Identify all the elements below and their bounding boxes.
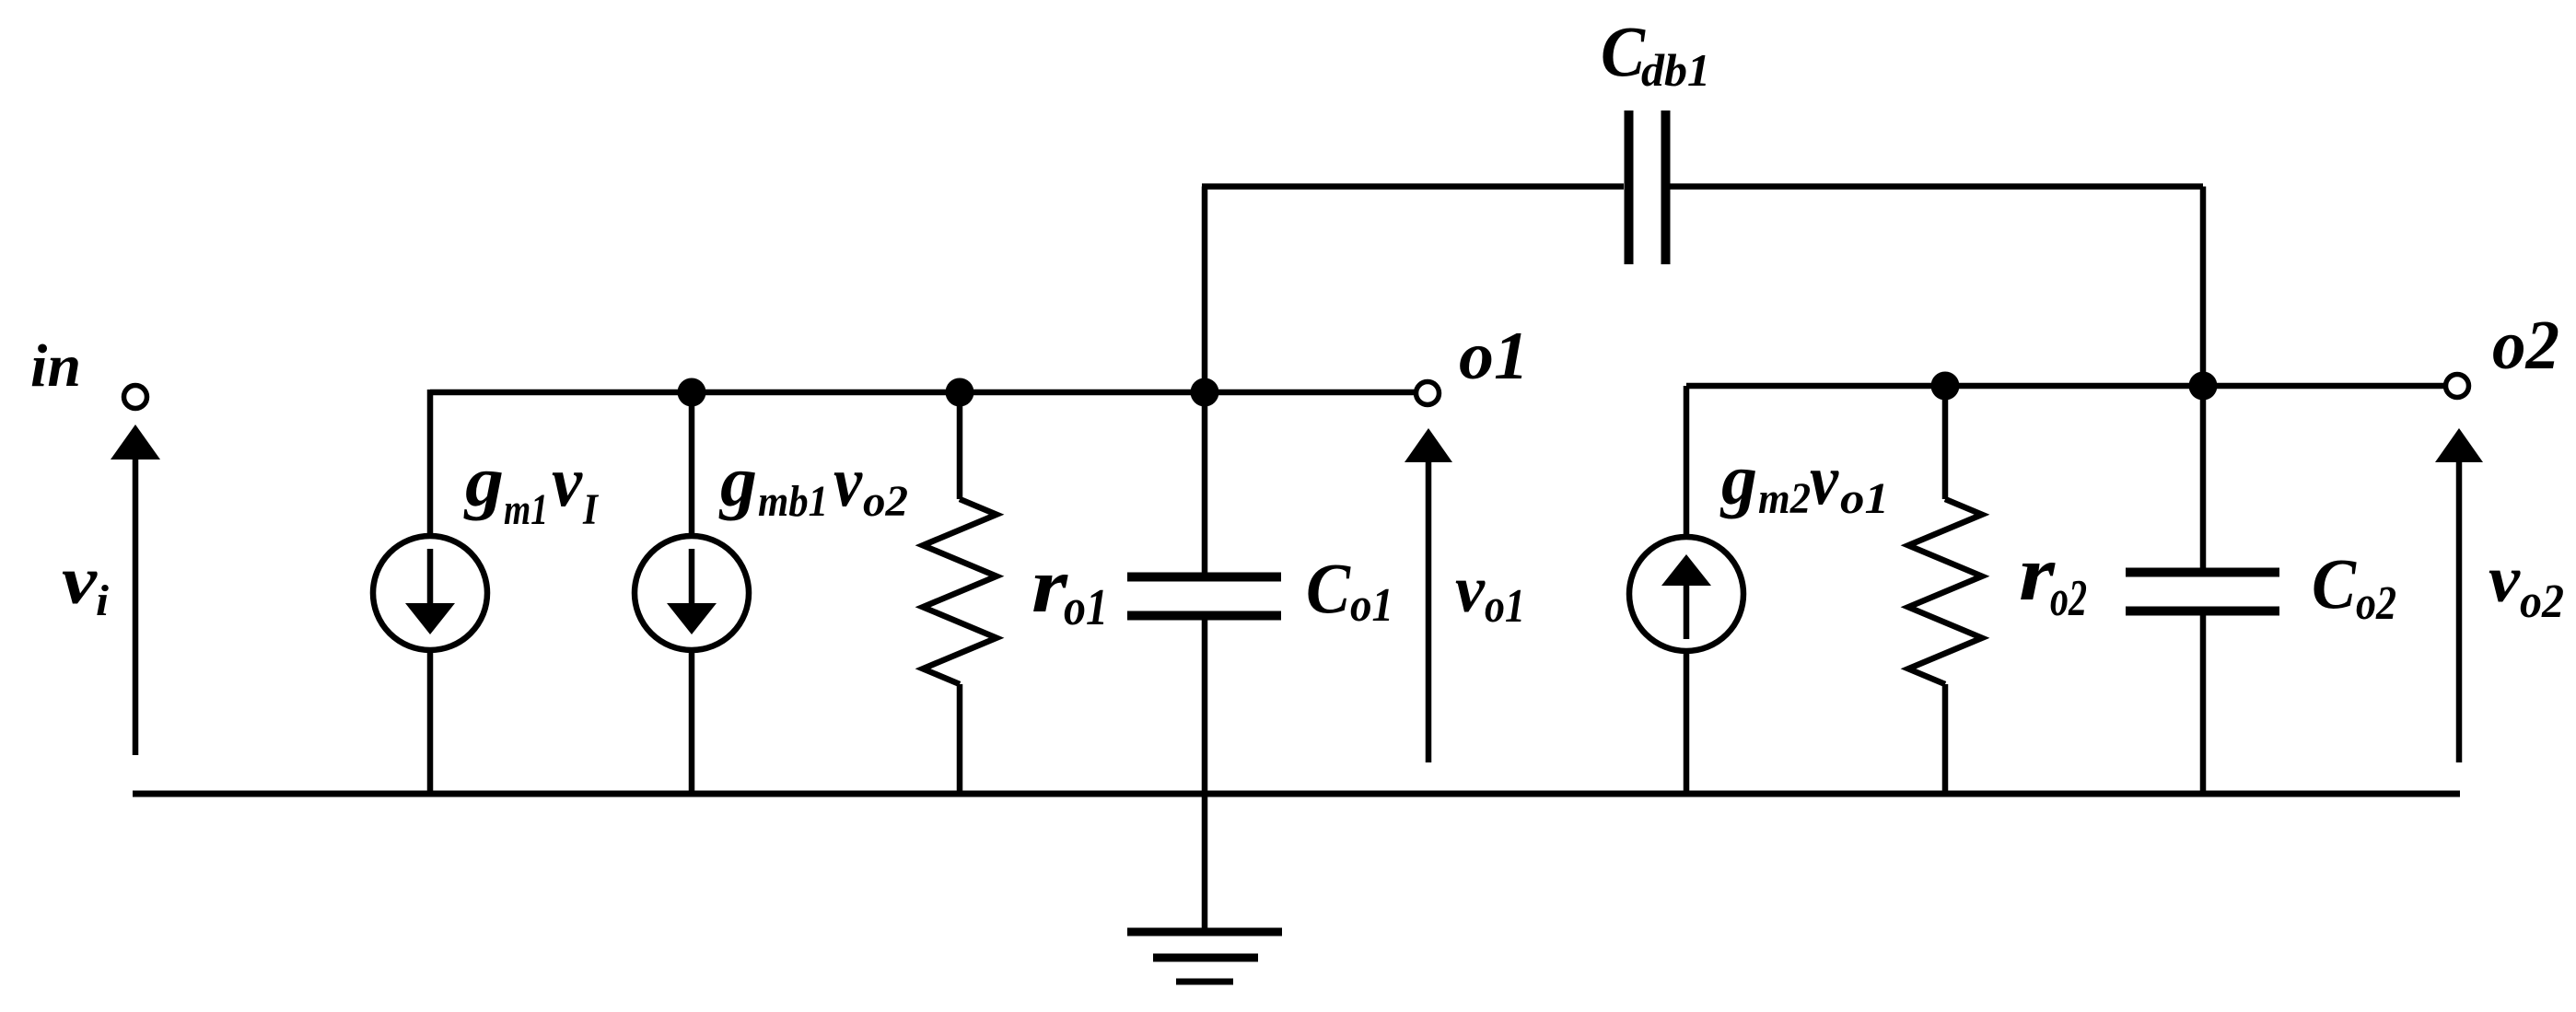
wire gm1 branch bottom: [427, 650, 434, 794]
svg-text:m1: m1: [504, 485, 548, 534]
svg-text:i: i: [96, 576, 110, 625]
label gmb1vo2: [718, 441, 908, 526]
wire top loop horizontal left: [1202, 183, 1624, 190]
arrow vo2: [2435, 428, 2483, 762]
svg-text:o1: o1: [1459, 319, 1529, 394]
capacitor Cdb1: [1629, 111, 1666, 264]
svg-text:g: g: [463, 441, 504, 521]
capacitor Co1: [1127, 392, 1281, 932]
current source gm2vo1: [1629, 537, 1743, 651]
current source gmb1vo2: [635, 536, 749, 650]
svg-text:v: v: [833, 441, 863, 521]
svg-text:db1: db1: [1641, 44, 1710, 96]
arrow vi: [111, 425, 160, 755]
wire top loop left vertical: [1202, 187, 1208, 393]
label gm1vI: [463, 441, 600, 534]
node in open terminal: [124, 386, 147, 409]
node o1 horizontal wire: [430, 390, 1416, 396]
svg-text:v: v: [1810, 439, 1839, 519]
svg-text:C: C: [1601, 11, 1646, 91]
arrow vo1: [1405, 428, 1452, 762]
label ro1: [1032, 542, 1108, 636]
node o2 open terminal: [2446, 375, 2469, 398]
wire gm2 branch bottom: [1684, 651, 1690, 794]
svg-text:g: g: [718, 441, 757, 521]
svg-text:C: C: [2312, 543, 2357, 623]
resistor ro2: [1908, 386, 1982, 794]
junction dot o1/Co1/Cdb1: [1191, 378, 1219, 407]
label vo1: [1455, 553, 1525, 633]
svg-text:in: in: [30, 332, 81, 400]
svg-text:o1: o1: [1485, 580, 1525, 633]
svg-text:g: g: [1719, 439, 1757, 519]
svg-text:m2: m2: [1758, 474, 1811, 523]
svg-text:v: v: [2489, 542, 2521, 616]
svg-text:o2: o2: [2520, 576, 2564, 628]
wire top loop right vertical (to Co2 column): [2200, 187, 2207, 573]
wire gmb1 branch bottom: [689, 650, 695, 794]
svg-text:v: v: [552, 441, 583, 521]
svg-text:v: v: [62, 543, 98, 619]
node o2 horizontal wire: [1686, 383, 2445, 390]
junction dot ro2 top: [1931, 372, 1960, 401]
label Co2: [2312, 543, 2396, 630]
label gm2vo1: [1719, 439, 1889, 523]
svg-text:o2: o2: [2356, 577, 2396, 630]
node o1 open terminal: [1416, 382, 1440, 405]
junction dot gmb1 top: [678, 378, 706, 407]
ground: [1127, 932, 1282, 982]
wire gm1 branch top: [427, 390, 434, 536]
ground rail wire: [133, 791, 2460, 797]
label vi: [62, 543, 110, 625]
capacitor Co2: [2126, 573, 2279, 795]
junction dot o2/Co2/Cdb1: [2189, 372, 2218, 401]
junction dot ro1 top: [946, 378, 974, 407]
svg-text:o1: o1: [1350, 579, 1393, 632]
svg-text:o2: o2: [2492, 307, 2559, 384]
svg-text:mb1: mb1: [758, 477, 828, 526]
wire top loop horizontal right: [1670, 183, 2203, 190]
current source gm1vI: [373, 536, 487, 650]
svg-text:I: I: [582, 485, 600, 534]
svg-text:o2: o2: [2050, 570, 2087, 627]
svg-text:o1: o1: [1064, 579, 1108, 636]
wire gmb1 branch top: [689, 392, 695, 536]
label ro2: [2019, 530, 2087, 627]
wire gm2 branch top: [1684, 386, 1690, 537]
svg-text:o2: o2: [863, 477, 908, 526]
svg-text:o1: o1: [1840, 474, 1889, 523]
label Co1: [1306, 548, 1393, 632]
resistor ro1: [923, 392, 997, 794]
label Cdb1: [1601, 11, 1710, 96]
svg-text:v: v: [1455, 553, 1486, 626]
label vo2: [2489, 542, 2564, 628]
svg-text:C: C: [1306, 548, 1351, 628]
